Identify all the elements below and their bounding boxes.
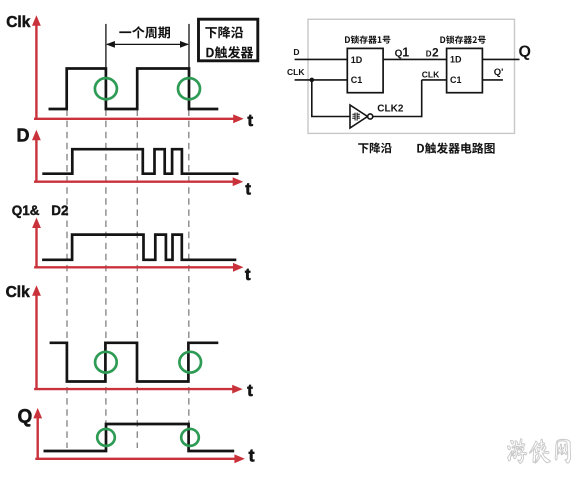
D latch U1 bbox=[347, 48, 383, 92]
svg-text:CLK: CLK bbox=[287, 67, 305, 77]
wire Q1 to D2 bbox=[383, 58, 447, 60]
svg-text:Q: Q bbox=[18, 407, 33, 428]
wire junction to inverter (vertical) bbox=[311, 80, 313, 117]
period dimension arrow bbox=[107, 43, 188, 45]
label D锁存器1号 (D latch no.1) bbox=[345, 35, 390, 43]
svg-text:1D: 1D bbox=[450, 55, 462, 65]
svg-text:CLK2: CLK2 bbox=[377, 103, 404, 114]
watermark 游侠网 bbox=[507, 439, 570, 464]
caption D触发器电路图 (D flip-flop circuit) bbox=[417, 143, 494, 154]
sampling circle on Clk falling edge 1 bbox=[95, 78, 117, 99]
Clk2 time axis (row 4) bbox=[34, 388, 235, 390]
Q1/D2 time axis (row 3) bbox=[34, 266, 236, 268]
inverter U3 (非) bbox=[350, 105, 368, 128]
wire CLK2 riser bbox=[421, 80, 423, 117]
svg-text:Q: Q bbox=[519, 44, 531, 61]
wire Q-bar stub bbox=[482, 79, 503, 81]
svg-text:C1: C1 bbox=[450, 75, 462, 85]
Clk time axis (row 1) bbox=[34, 118, 236, 120]
caption 下降沿 (falling edge) bbox=[358, 142, 392, 153]
waveform Q1/D2 (row 3) bbox=[42, 235, 236, 260]
wire CLK input bbox=[295, 79, 348, 81]
svg-text:CLK: CLK bbox=[422, 70, 440, 80]
waveform D (row 2) bbox=[42, 149, 238, 174]
svg-text:D: D bbox=[426, 50, 432, 59]
Clk2 value axis (row 4) bbox=[35, 293, 37, 390]
callout box 下降沿 D触发器 bbox=[199, 19, 258, 61]
Q value axis (row 5) bbox=[37, 415, 39, 459]
svg-text:D: D bbox=[293, 47, 299, 57]
waveform Clk (row 1) bbox=[49, 69, 219, 110]
svg-text:C1: C1 bbox=[351, 75, 363, 85]
Q1/D2 value axis (row 3) bbox=[35, 225, 37, 268]
inverter bubble bbox=[368, 114, 373, 119]
svg-text:t: t bbox=[249, 445, 255, 465]
label 一个周期 (one period) bbox=[119, 26, 170, 38]
svg-text:2: 2 bbox=[432, 46, 439, 60]
D latch U2 bbox=[447, 48, 483, 92]
sampling circle on Q falling edge bbox=[181, 429, 199, 446]
callout text 下降沿 bbox=[205, 26, 243, 38]
D time axis (row 2) bbox=[34, 180, 236, 182]
svg-text:t: t bbox=[245, 266, 251, 284]
waveform Clk2 (row 4) bbox=[50, 343, 219, 382]
wire D input bbox=[295, 58, 348, 60]
dashed guide line 4 (x=188.8) bbox=[188, 110, 190, 449]
Q time axis (row 5) bbox=[35, 458, 237, 460]
sampling circle on Clk2 rising edge 2 bbox=[179, 352, 201, 373]
svg-text:t: t bbox=[248, 112, 254, 130]
svg-text:D: D bbox=[17, 126, 30, 146]
circuit frame bbox=[308, 19, 515, 133]
sampling circle on Clk falling edge 2 bbox=[178, 78, 200, 99]
wire CLK2 into U2 C1 bbox=[422, 79, 447, 81]
period measure line left bbox=[105, 24, 107, 68]
node CLK junction bbox=[310, 78, 315, 83]
wire CLK2 horizontal bbox=[373, 116, 422, 118]
callout text D触发器 bbox=[206, 46, 253, 58]
svg-text:t: t bbox=[245, 180, 251, 198]
waveform Q (row 5) bbox=[44, 424, 235, 451]
sampling circle on Clk2 rising edge 1 bbox=[95, 352, 117, 373]
svg-text:1D: 1D bbox=[351, 55, 363, 65]
inverter text 非 bbox=[352, 113, 360, 121]
svg-text:Clk: Clk bbox=[6, 284, 31, 301]
dashed guide line 3 (x=137.3) bbox=[136, 110, 138, 449]
wire Q output bbox=[482, 58, 519, 60]
label D锁存器2号 (D latch no.2) bbox=[440, 36, 485, 44]
dashed guide line 1 (x=67.0) bbox=[66, 110, 68, 449]
svg-text:Clk: Clk bbox=[6, 14, 31, 31]
Clk value axis (row 1) bbox=[35, 23, 37, 120]
svg-text:1: 1 bbox=[402, 46, 409, 60]
wire junction to inverter (horizontal) bbox=[311, 116, 350, 118]
dashed guide line 2 (x=105.9) bbox=[105, 110, 107, 449]
svg-text:t: t bbox=[247, 382, 253, 400]
period measure line right bbox=[188, 24, 190, 68]
D value axis (row 2) bbox=[35, 137, 37, 182]
sampling circle on Q rising edge bbox=[97, 429, 115, 446]
svg-text:Q': Q' bbox=[494, 67, 504, 78]
